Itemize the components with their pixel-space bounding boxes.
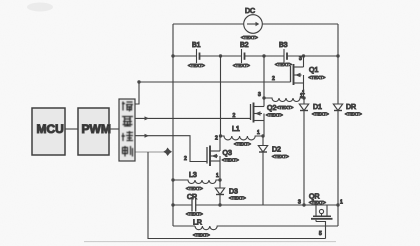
diode D1	[299, 98, 329, 205]
svg-text:<TEXT>: <TEXT>	[193, 233, 210, 238]
wire: mid rail x=220	[220, 56, 222, 136]
scan artifact line bottom	[84, 241, 336, 243]
svg-text:B1: B1	[192, 42, 201, 49]
wire PWM-isolation box	[109, 128, 119, 130]
svg-text:<TEXT>: <TEXT>	[345, 112, 362, 117]
svg-text:<TEXT>: <TEXT>	[309, 75, 326, 80]
transistor QR (rotated)	[309, 194, 333, 239]
svg-text:Q1: Q1	[309, 67, 318, 74]
svg-text:D2: D2	[272, 147, 281, 154]
svg-text:LR: LR	[193, 220, 202, 227]
svg-text:DC: DC	[245, 8, 255, 15]
svg-text:L3: L3	[189, 172, 197, 179]
PWM box	[78, 108, 111, 155]
wire MCU-PWM	[65, 128, 78, 130]
char 2	[122, 117, 133, 127]
node 2 (L1 left)	[219, 134, 222, 137]
svg-text:<TEXT>: <TEXT>	[241, 35, 258, 40]
svg-text:Q3: Q3	[223, 150, 232, 157]
char 4	[122, 146, 133, 157]
capacitor CR	[173, 194, 203, 217]
battery B1	[188, 42, 205, 68]
diode D2	[258, 136, 289, 205]
svg-text:3: 3	[299, 56, 302, 62]
char 1	[122, 102, 133, 112]
scan smudge top-left	[27, 3, 53, 12]
node: L3 left junction	[171, 178, 174, 181]
wire: gate drive 1 to Q2	[135, 117, 251, 119]
svg-text:<TEXT>: <TEXT>	[272, 154, 289, 159]
svg-text:L1: L1	[232, 126, 240, 133]
svg-text:2: 2	[272, 76, 275, 82]
svg-text:<TEXT>: <TEXT>	[233, 63, 250, 68]
transistor Q1	[291, 56, 326, 99]
svg-text:2: 2	[215, 136, 218, 142]
node: rail junction dots	[171, 54, 174, 57]
svg-text:2: 2	[233, 113, 236, 119]
char 3	[122, 131, 134, 141]
svg-text:1: 1	[257, 130, 260, 136]
svg-text:1: 1	[216, 173, 219, 179]
inductor L1	[221, 126, 264, 147]
wire: right rail (top part)	[337, 24, 339, 104]
svg-text:<TEXT>: <TEXT>	[277, 105, 294, 110]
svg-text:3: 3	[298, 200, 301, 206]
svg-text:5: 5	[319, 231, 322, 237]
svg-text:1: 1	[300, 93, 303, 99]
svg-text:DR: DR	[346, 104, 356, 111]
svg-text:MCU: MCU	[37, 122, 64, 136]
svg-text:<TEXT>: <TEXT>	[234, 142, 251, 147]
svg-text:D1: D1	[313, 104, 322, 111]
svg-text:<TEXT>: <TEXT>	[309, 200, 326, 205]
svg-text:3: 3	[258, 92, 261, 98]
svg-text:<TEXT>: <TEXT>	[186, 212, 203, 217]
svg-text:1: 1	[340, 200, 343, 206]
wire: LR line to right rail	[217, 225, 338, 227]
svg-text:<TEXT>: <TEXT>	[188, 63, 205, 68]
wire: gate drive 2 to Q3	[135, 136, 207, 162]
transistor Q2	[251, 98, 294, 136]
svg-text:<TEXT>: <TEXT>	[266, 113, 283, 118]
wire: top rail	[173, 23, 244, 25]
inductor (output of Q2 leg)	[264, 98, 304, 102]
svg-text:<TEXT>: <TEXT>	[222, 158, 239, 163]
svg-text:PWM: PWM	[82, 122, 111, 136]
node: D1 junction on gate line	[302, 203, 305, 206]
wire: LR return line	[173, 225, 195, 227]
svg-text:<TEXT>: <TEXT>	[186, 186, 203, 191]
battery B2	[233, 42, 250, 68]
svg-text:B3: B3	[279, 42, 288, 49]
node: D3 junction on gate line	[218, 203, 221, 206]
wire: gate line to QR	[196, 204, 338, 206]
wire: left rail	[172, 24, 174, 226]
svg-text:<TEXT>: <TEXT>	[229, 196, 246, 201]
node: CR rail junction	[171, 203, 174, 206]
node 1	[302, 96, 305, 99]
transistor Q3	[207, 136, 239, 180]
svg-text:D3: D3	[229, 189, 238, 196]
wire: gate drive 3 stub with arrow	[135, 151, 171, 153]
MCU box	[32, 108, 65, 155]
node: right rail junction on gate line	[336, 203, 339, 206]
diode D3	[215, 180, 246, 205]
wire: battery rail	[173, 55, 197, 57]
svg-text:<TEXT>: <TEXT>	[275, 62, 292, 67]
wire: branch down to bottom rail	[148, 152, 326, 239]
wire: box top feed to Q1 gate	[135, 82, 291, 104]
isolation control box	[119, 99, 135, 161]
svg-text:Q2: Q2	[267, 105, 276, 112]
svg-text:2: 2	[184, 156, 187, 162]
node 3	[262, 96, 265, 99]
svg-text:CR: CR	[187, 194, 197, 201]
DC source U0	[241, 8, 262, 40]
battery B3	[275, 42, 292, 67]
wire: mid rail x=264	[263, 56, 265, 98]
inductor L3	[173, 172, 220, 191]
diode DR	[333, 104, 362, 226]
svg-text:<TEXT>: <TEXT>	[312, 112, 329, 117]
svg-text:B2: B2	[240, 42, 249, 49]
inductor LR	[193, 220, 220, 238]
